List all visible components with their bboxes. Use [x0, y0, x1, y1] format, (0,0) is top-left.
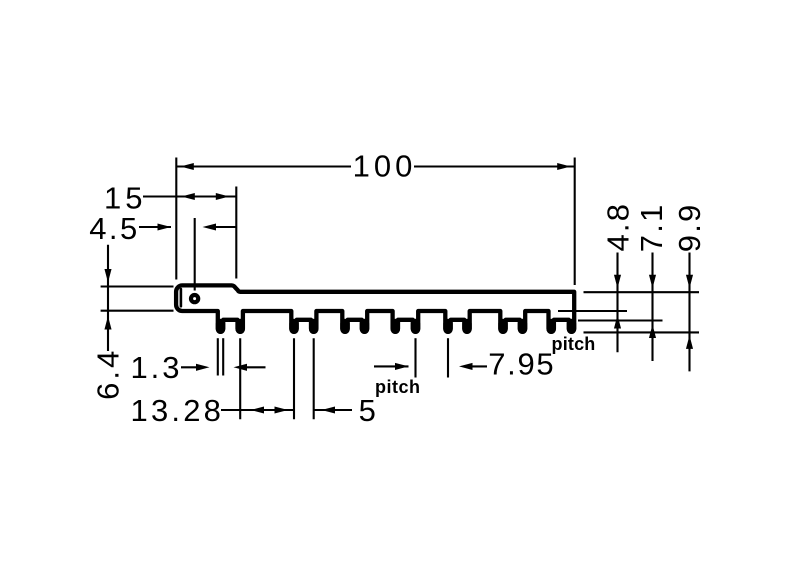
- arrowhead 13.28 right / 5 left: [275, 406, 289, 413]
- part profile outline: [176, 285, 574, 332]
- arrowhead 4.8 bottom: [614, 315, 621, 329]
- extension line finger 2B (x=313.7): [313, 338, 315, 419]
- extension line right top edge (y=292.2): [584, 291, 700, 293]
- extension line right bar bottom (y=311): [558, 310, 627, 312]
- left end inner wall line: [180, 289, 183, 306]
- extension line finger 1A right (x=223.2): [222, 338, 224, 375]
- dimension line 5: [314, 409, 352, 411]
- extension line left top (y=286.5): [101, 285, 174, 287]
- extension line left bottom (y=310.7): [101, 310, 174, 312]
- extension line right finger bottom (y=332.4): [584, 331, 700, 333]
- svg-text:4.5: 4.5: [89, 211, 140, 246]
- arrowhead 7.95 left: [395, 363, 409, 370]
- arrowhead 6.4 bottom: [104, 316, 111, 330]
- extension line right edge (x=574.7): [574, 158, 576, 286]
- arrowhead 1.3 left: [196, 364, 210, 371]
- arrowhead 15 left: [181, 193, 195, 200]
- extension line right notch floor (y=320.5): [578, 319, 663, 321]
- svg-text:1.3: 1.3: [130, 350, 182, 385]
- arrowhead 7.1 top: [649, 275, 656, 289]
- extension line finger 2A (x=294): [293, 338, 295, 419]
- extension line hole center (x=194.7): [194, 218, 196, 291]
- dimension line 9.9: [688, 253, 690, 372]
- svg-text:100: 100: [353, 149, 417, 184]
- extension line left edge (x=176.3): [175, 158, 177, 280]
- arrowhead 4.8 top: [614, 275, 621, 289]
- arrowhead 5 right: [322, 406, 336, 413]
- svg-text:7.1: 7.1: [634, 203, 669, 253]
- svg-text:5: 5: [359, 393, 376, 428]
- arrowhead 9.9 top: [686, 275, 693, 289]
- extension line finger 5A (x=448): [447, 338, 449, 377]
- extension line finger 1B (x=240.2): [239, 338, 241, 419]
- extension line step (x=236.3): [235, 187, 237, 279]
- arrowhead 15 right: [216, 193, 230, 200]
- svg-text:4.8: 4.8: [600, 202, 635, 252]
- arrowhead 6.4 top: [104, 269, 111, 283]
- arrowhead 9.9 bottom: [686, 335, 693, 349]
- arrowhead 100 right: [557, 163, 571, 170]
- svg-text:13.28: 13.28: [131, 393, 225, 428]
- finger solid bottom fills: [221, 324, 572, 330]
- arrowhead 4.5 left: [158, 223, 172, 230]
- arrowhead 7.1 bottom: [649, 325, 656, 339]
- mounting hole: [191, 295, 198, 302]
- dimension line 6.4: [107, 245, 109, 351]
- dimension line 1.3: [181, 366, 266, 368]
- dimension line 4.5: [139, 226, 236, 228]
- dimension line 13.28: [221, 409, 294, 411]
- svg-text:pitch: pitch: [375, 377, 421, 397]
- extension line finger 4B (x=415.5): [414, 338, 416, 377]
- svg-text:6.4: 6.4: [91, 348, 126, 400]
- dimension line 15: [143, 195, 236, 197]
- arrowhead 13.28 left: [251, 406, 265, 413]
- extension line finger 1A left (x=217.8): [217, 338, 219, 375]
- svg-text:7.95: 7.95: [488, 347, 555, 382]
- arrowhead 100 left: [180, 163, 194, 170]
- svg-text:pitch: pitch: [552, 334, 596, 354]
- arrowhead 4.5 right: [203, 223, 217, 230]
- dimension line 7.95: [374, 365, 487, 367]
- arrowhead 7.95 right: [459, 363, 473, 370]
- svg-text:9.9: 9.9: [672, 203, 707, 253]
- arrowhead 1.3 right: [234, 364, 248, 371]
- dimension line 4.8: [616, 253, 618, 353]
- dimension line 100: [176, 165, 574, 167]
- dimension line 7.1: [651, 253, 653, 362]
